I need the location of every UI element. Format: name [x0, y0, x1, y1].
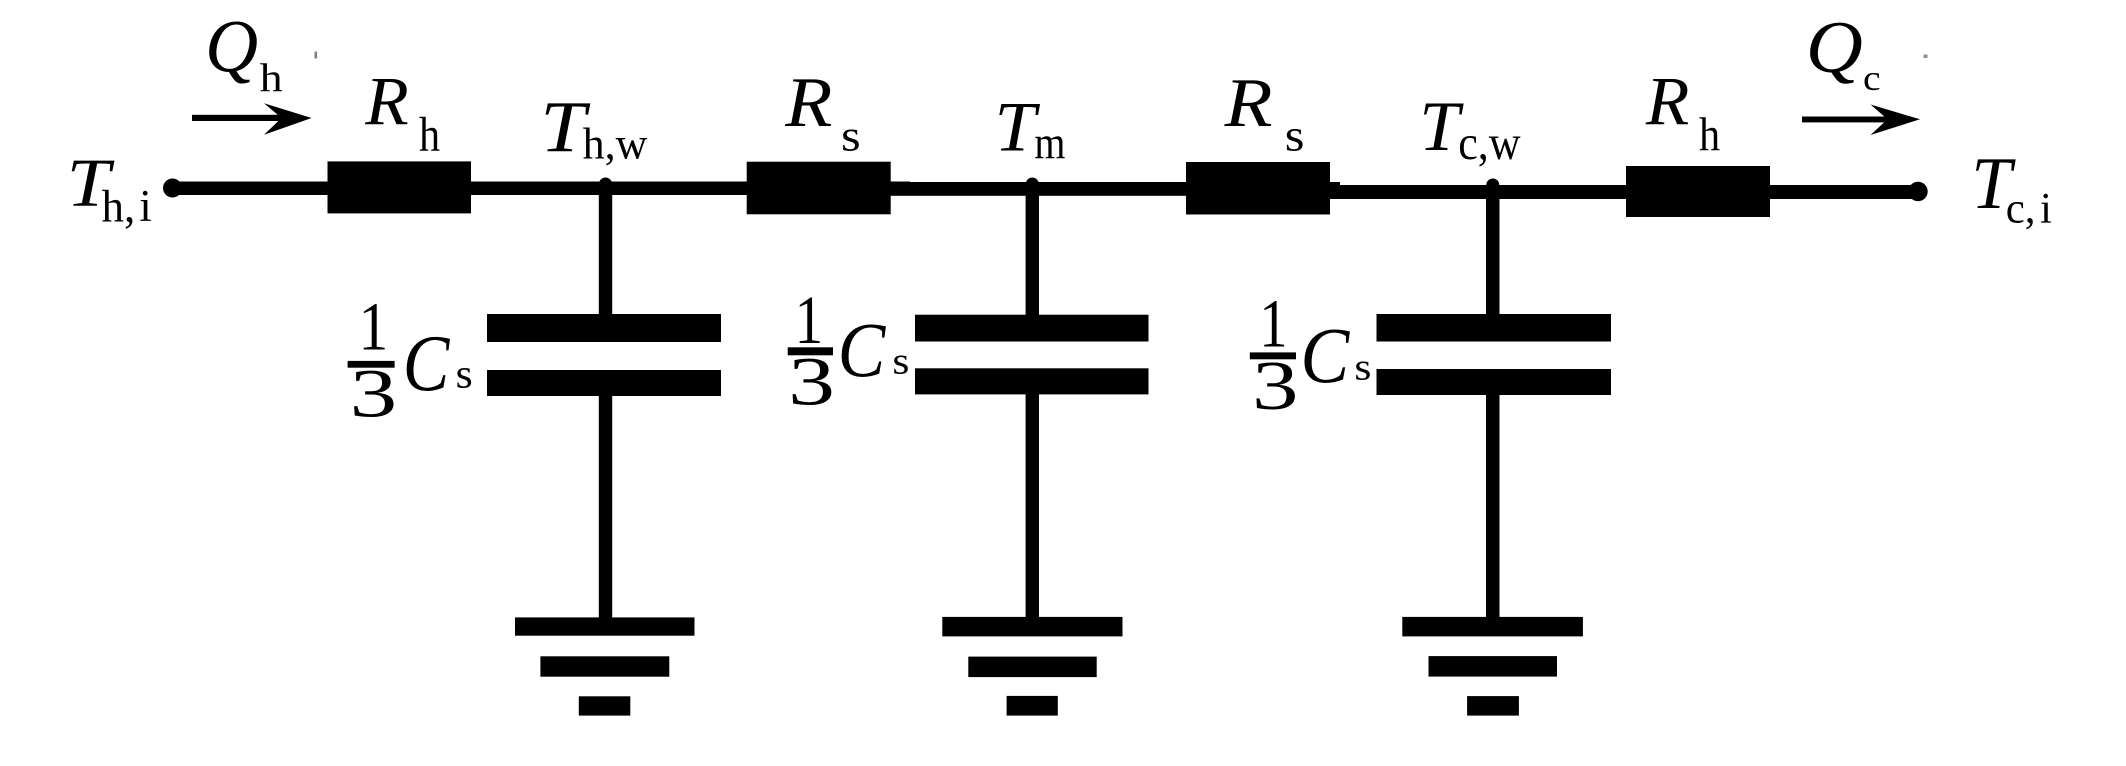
resistor R_s (second) body	[747, 162, 891, 215]
svg-text:c: c	[1863, 59, 1881, 99]
svg-text:s: s	[456, 352, 473, 397]
svg-text:Q: Q	[205, 6, 258, 89]
arrow Q_h shaft	[192, 115, 284, 121]
wire capacitor 3 lower vertical	[1486, 394, 1500, 618]
label 1/3 Cs (first capacitor)	[348, 289, 473, 432]
node T_m junction dot	[1026, 178, 1039, 191]
svg-text:Q: Q	[1806, 6, 1863, 88]
label R_h (first)	[364, 64, 440, 161]
ground 1 bar 2	[540, 656, 669, 676]
label Q_c	[1806, 6, 1881, 98]
node T_c,w junction dot	[1486, 179, 1499, 192]
ground 3 bar 1	[1402, 617, 1583, 637]
ground 3 bar 2	[1429, 656, 1558, 677]
svg-text:s: s	[841, 112, 861, 160]
capacitor C2 top plate	[915, 315, 1149, 342]
resistor R_h (fourth) body	[1626, 166, 1770, 217]
arrow Q_h head	[264, 103, 312, 135]
svg-text:h: h	[260, 57, 283, 101]
svg-text:3: 3	[350, 355, 398, 431]
svg-text:s: s	[892, 340, 909, 382]
label T_c,i	[1971, 142, 2052, 232]
label R_h (fourth)	[1645, 64, 1720, 161]
wire capacitor 1 upper vertical	[599, 188, 612, 316]
svg-text:C: C	[1300, 313, 1350, 400]
svg-text:h: h	[419, 106, 440, 161]
wire capacitor 1 lower vertical	[599, 394, 612, 618]
capacitor C3 top plate	[1377, 314, 1612, 342]
ground 2 bar 2	[968, 657, 1096, 678]
svg-text:R: R	[784, 64, 832, 143]
capacitor C3 bottom plate	[1377, 369, 1612, 395]
svg-text:R: R	[1224, 65, 1273, 142]
ground 2 bar 3	[1007, 696, 1058, 716]
label T_m	[995, 87, 1066, 169]
label R_s (second)	[784, 64, 861, 161]
svg-text:i: i	[139, 181, 152, 231]
resistor R_s (third) body	[1186, 162, 1330, 215]
svg-text:T: T	[995, 87, 1041, 166]
label T_h,w	[540, 86, 647, 168]
ground 2 bar 1	[942, 617, 1122, 637]
arrow Q_c shaft	[1802, 117, 1890, 123]
svg-text:h: h	[1699, 108, 1720, 161]
svg-text:h,: h,	[102, 181, 136, 231]
node T_h,i terminal dot	[163, 179, 182, 198]
svg-text:C: C	[838, 308, 887, 395]
wire main horizontal right segment	[1330, 185, 1918, 199]
label 1/3 Cs (second capacitor)	[788, 282, 910, 420]
svg-text:3: 3	[788, 343, 835, 419]
ground 3 bar 3	[1467, 696, 1519, 716]
capacitor C1 bottom plate	[487, 370, 721, 396]
ground 1 bar 1	[515, 617, 695, 635]
svg-text:c,: c,	[2006, 186, 2036, 233]
stray mark near Q_c	[1924, 55, 1928, 59]
label Q_h	[205, 6, 282, 100]
capacitor C2 bottom plate	[915, 368, 1149, 394]
svg-text:R: R	[364, 64, 409, 140]
wire capacitor 2 upper vertical	[1026, 188, 1039, 316]
svg-text:c,w: c,w	[1458, 116, 1521, 171]
wire capacitor 3 upper vertical	[1486, 188, 1500, 316]
stray mark near Q_h	[315, 52, 318, 59]
wire main horizontal middle segment	[890, 182, 1340, 196]
resistor R_h (first) body	[328, 161, 472, 213]
svg-text:3: 3	[1252, 347, 1299, 424]
wire main horizontal left segment	[172, 182, 910, 196]
arrow Q_c head	[1871, 105, 1921, 136]
wire capacitor 2 lower vertical	[1026, 393, 1039, 618]
svg-text:s: s	[1354, 346, 1371, 388]
svg-text:m: m	[1034, 117, 1065, 169]
label 1/3 Cs (third capacitor)	[1250, 285, 1372, 424]
svg-text:C: C	[403, 320, 450, 408]
svg-text:i: i	[2040, 186, 2052, 233]
svg-text:h,w: h,w	[583, 120, 648, 169]
node T_c,i terminal dot	[1908, 182, 1927, 201]
label T_c,w	[1419, 88, 1521, 171]
svg-text:R: R	[1645, 64, 1690, 140]
ground 1 bar 3	[579, 696, 631, 715]
label R_s (third)	[1224, 65, 1305, 161]
svg-text:1: 1	[359, 289, 389, 365]
node T_h,w junction dot	[599, 178, 612, 191]
svg-text:s: s	[1285, 110, 1305, 160]
capacitor C1 top plate	[487, 314, 721, 342]
label T_h,i	[67, 144, 152, 231]
